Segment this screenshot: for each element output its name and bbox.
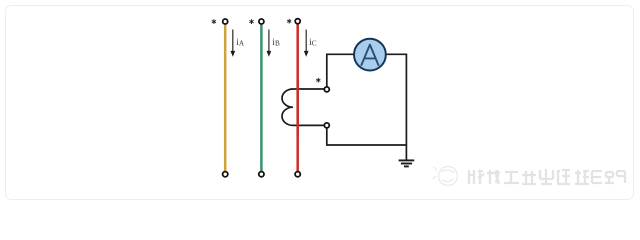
svg-text:C: C — [312, 39, 317, 47]
label iC — [309, 37, 317, 47]
terminal phase C top — [295, 19, 300, 24]
svg-text:B: B — [275, 39, 280, 47]
current arrow iB — [267, 30, 272, 57]
wire phase A conductor — [224, 25, 227, 171]
ammeter PA — [354, 39, 386, 71]
terminal phase B top — [259, 19, 264, 24]
label iB — [272, 37, 280, 47]
wire ammeter to ground branch — [386, 54, 407, 159]
terminal CT secondary bottom (l) — [324, 123, 329, 128]
ground — [399, 160, 415, 166]
current transformer TA secondary winding — [282, 89, 293, 125]
wire CT bottom terminal to ground node — [327, 128, 407, 145]
watermark text — [469, 169, 625, 184]
wire CT secondary bottom lead — [293, 124, 327, 126]
terminal phase A top — [223, 19, 228, 24]
polarity mark CT secondary — [316, 78, 320, 83]
wire CT secondary top lead — [293, 88, 327, 90]
terminal phase A bottom — [223, 172, 228, 177]
svg-text:A: A — [239, 39, 245, 47]
watermark logo — [433, 167, 458, 186]
terminal phase B bottom — [259, 172, 264, 177]
wire phase C conductor (CT primary) — [296, 24, 299, 171]
wire phase B conductor — [260, 25, 263, 171]
wire phase C over winding — [296, 80, 299, 135]
polarity mark phase A — [212, 19, 216, 24]
current arrow iA — [230, 30, 235, 57]
polarity mark phase B — [249, 19, 253, 24]
label iA — [236, 37, 245, 47]
terminal phase C bottom — [295, 172, 300, 177]
current arrow iC — [304, 30, 309, 57]
polarity mark phase C — [287, 19, 291, 24]
wire CT secondary terminal to ammeter — [327, 54, 354, 86]
terminal CT secondary top (k) — [324, 87, 329, 92]
